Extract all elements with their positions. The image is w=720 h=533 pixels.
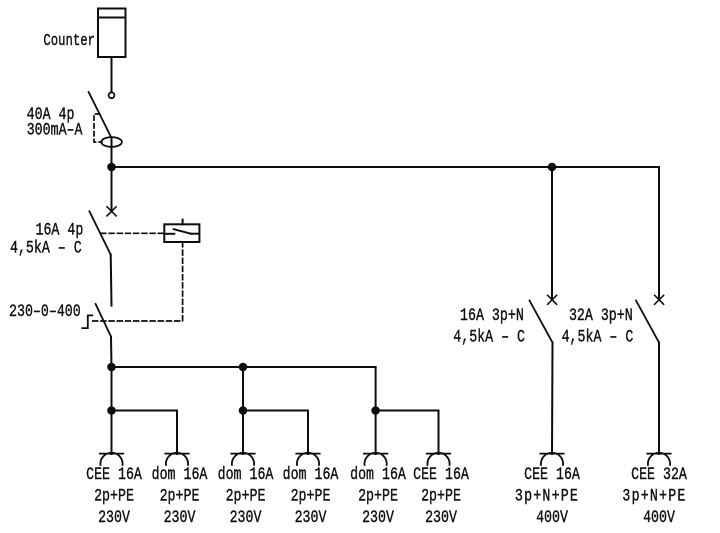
label socket X1 CEE 16A 2p+PE 230V (86, 464, 142, 527)
label socket X6 CEE 16A 2p+PE 230V (413, 464, 469, 527)
wire bus down to breaker Q2 (111, 167, 113, 211)
wire Q3 to socket X7 (551, 343, 554, 455)
open terminal circle (109, 92, 115, 98)
socket X6 CEE 16A (427, 453, 450, 465)
svg-text:400V: 400V (643, 507, 675, 527)
changeover switch S1 blade (96, 304, 111, 337)
label 16A 3p+N / 4,5kA - C (453, 305, 525, 347)
label 32A 3p+N / 4,5kA - C (562, 305, 634, 347)
svg-text:CEE 16A: CEE 16A (524, 464, 580, 484)
label socket X5 dom 16A 2p+PE 230V (350, 464, 406, 527)
svg-text:4,5kA – C: 4,5kA – C (562, 327, 634, 347)
svg-text:CEE 16A: CEE 16A (86, 464, 142, 484)
breaker Q3 X terminal (548, 295, 557, 304)
wire switch S1 to rail A (110, 337, 113, 367)
wire bus corner to branch 32A (658, 167, 660, 300)
wire rail B segment 1 (112, 411, 178, 455)
breaker Q4 X terminal (655, 295, 664, 304)
wire rail B segment 3 (376, 411, 439, 455)
breaker Q2 X terminal (107, 207, 116, 216)
svg-text:dom 16A: dom 16A (218, 464, 274, 484)
socket X1 CEE 16A (100, 453, 123, 465)
RCD Q1 blade (89, 92, 112, 138)
svg-text:dom 16A: dom 16A (283, 464, 339, 484)
node rail B right (371, 406, 380, 415)
svg-text:3p+N+PE: 3p+N+PE (622, 486, 686, 506)
wire drop socket 1 (111, 367, 113, 454)
label socket X7 CEE 16A 3p+N+PE 400V (515, 464, 581, 527)
node rail A left (107, 363, 116, 372)
wire drop socket 5 (375, 411, 377, 455)
wire branch 16A 3p+N down (551, 167, 553, 300)
svg-text:3p+N+PE: 3p+N+PE (515, 486, 579, 506)
svg-text:Counter: Counter (43, 32, 95, 50)
wire rail A (112, 366, 376, 368)
wire rail A corner down (375, 367, 377, 411)
label socket X3 dom 16A 2p+PE 230V (218, 464, 274, 527)
label 40A 4p / 300mA-A (27, 105, 83, 141)
svg-text:300mA–A: 300mA–A (27, 120, 83, 140)
svg-text:2p+PE: 2p+PE (358, 486, 398, 506)
svg-text:400V: 400V (536, 507, 568, 527)
svg-text:2p+PE: 2p+PE (226, 486, 266, 506)
wire Q4 to socket X8 (658, 343, 660, 455)
RCD Q1 dashed bracket (94, 114, 102, 142)
changeover switch S1 manual lever (82, 315, 92, 328)
breaker Q3 blade (530, 301, 553, 343)
svg-text:2p+PE: 2p+PE (421, 486, 461, 506)
node rail B left (107, 406, 116, 415)
wire rail B segment 2 (243, 411, 308, 455)
dashed link breaker Q2 to relay K1 (101, 232, 164, 234)
svg-text:2p+PE: 2p+PE (94, 486, 134, 506)
meter counter box (98, 9, 126, 58)
node main bus junction (107, 163, 116, 172)
svg-text:2p+PE: 2p+PE (291, 486, 331, 506)
socket X8 CEE 32A 400V (647, 453, 670, 465)
label socket X4 dom 16A 2p+PE 230V (283, 464, 339, 527)
node bus right branch (548, 163, 557, 172)
socket X4 dom 16A (296, 453, 319, 465)
svg-text:230V: 230V (164, 507, 196, 527)
svg-text:230V: 230V (98, 507, 130, 527)
svg-text:CEE 32A: CEE 32A (631, 464, 687, 484)
label socket X2 dom 16A 2p+PE 230V (152, 464, 208, 527)
node rail B middle (239, 406, 248, 415)
wire horizontal main bus (112, 166, 660, 168)
socket X3 dom 16A (231, 453, 254, 465)
svg-text:230V: 230V (425, 507, 457, 527)
wire drop socket 3 (242, 367, 244, 454)
wire between Q2 and changeover switch (110, 255, 113, 306)
svg-text:4,5kA – C: 4,5kA – C (453, 327, 525, 347)
breaker Q4 blade (636, 301, 659, 343)
svg-text:230V: 230V (362, 507, 394, 527)
socket X2 dom 16A (165, 453, 188, 465)
svg-text:dom 16A: dom 16A (152, 464, 208, 484)
svg-text:4,5kA – C: 4,5kA – C (10, 238, 82, 258)
breaker Q2 blade (89, 211, 110, 254)
RCD Q1 toroid ellipse (101, 137, 122, 147)
svg-text:dom 16A: dom 16A (350, 464, 406, 484)
svg-text:2p+PE: 2p+PE (160, 486, 200, 506)
socket X5 dom 16A (364, 453, 387, 465)
socket X7 CEE 16A 400V (540, 453, 563, 465)
wire counter to terminal (111, 57, 113, 92)
node rail A middle (239, 363, 248, 372)
svg-text:230V: 230V (230, 507, 262, 527)
dashed link relay K1 down (91, 242, 183, 321)
label socket X8 CEE 32A 3p+N+PE 400V (622, 464, 687, 527)
svg-text:230V: 230V (295, 507, 327, 527)
svg-text:CEE 16A: CEE 16A (413, 464, 469, 484)
svg-text:16A 3p+N: 16A 3p+N (460, 305, 524, 325)
wire RCD to bus node (111, 138, 113, 168)
svg-text:32A 3p+N: 32A 3p+N (569, 305, 633, 325)
label 16A 4p / 4,5kA - C (10, 220, 83, 258)
relay K1 box (164, 220, 199, 242)
svg-text:230–0–400: 230–0–400 (9, 301, 81, 321)
